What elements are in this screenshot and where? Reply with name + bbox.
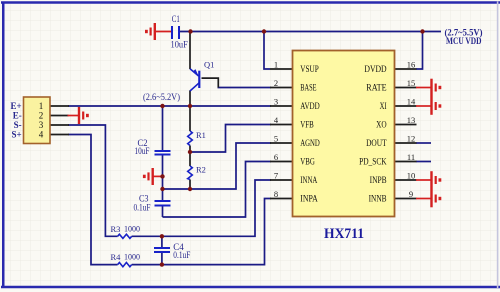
svg-text:C1: C1	[172, 14, 180, 24]
svg-text:PD_SCK: PD_SCK	[359, 158, 387, 168]
svg-text:S+: S+	[12, 130, 22, 140]
svg-text:10uF: 10uF	[171, 40, 188, 50]
svg-text:AGND: AGND	[300, 139, 320, 149]
svg-text:INPA: INPA	[300, 195, 318, 205]
svg-text:HX711: HX711	[324, 226, 364, 242]
svg-text:AVDD: AVDD	[300, 102, 320, 112]
svg-text:8: 8	[274, 189, 278, 199]
svg-text:1000: 1000	[124, 252, 140, 262]
svg-text:11: 11	[407, 152, 415, 162]
svg-text:VFB: VFB	[300, 121, 314, 131]
svg-text:(2.6~5.2V): (2.6~5.2V)	[143, 92, 180, 102]
svg-text:14: 14	[407, 96, 416, 106]
svg-text:7: 7	[274, 170, 278, 180]
svg-text:INNB: INNB	[369, 195, 387, 205]
svg-text:R4: R4	[111, 252, 122, 262]
svg-text:5: 5	[274, 133, 278, 143]
svg-text:XO: XO	[376, 121, 387, 131]
svg-text:10uF: 10uF	[135, 146, 150, 156]
svg-text:6: 6	[274, 152, 278, 162]
svg-text:R1: R1	[196, 130, 206, 140]
svg-text:INNA: INNA	[300, 176, 317, 186]
svg-text:MCU VDD: MCU VDD	[446, 36, 482, 46]
svg-text:E+: E+	[11, 101, 22, 111]
svg-text:2: 2	[39, 111, 44, 121]
svg-text:Q1: Q1	[204, 60, 214, 70]
svg-text:RATE: RATE	[366, 84, 387, 94]
svg-text:R2: R2	[196, 165, 206, 175]
svg-text:13: 13	[407, 115, 416, 125]
svg-text:BASE: BASE	[300, 84, 316, 94]
svg-text:XI: XI	[380, 102, 387, 112]
svg-text:10: 10	[407, 170, 416, 180]
svg-text:12: 12	[407, 133, 416, 143]
svg-text:S-: S-	[14, 120, 22, 130]
svg-text:E-: E-	[13, 111, 22, 121]
svg-text:16: 16	[407, 59, 416, 69]
svg-text:2: 2	[274, 78, 278, 88]
svg-text:4: 4	[39, 130, 44, 140]
svg-text:VSUP: VSUP	[300, 65, 319, 75]
svg-text:INPB: INPB	[370, 176, 387, 186]
svg-text:3: 3	[39, 120, 44, 130]
svg-text:9: 9	[409, 189, 413, 199]
svg-text:1000: 1000	[124, 223, 140, 233]
svg-text:0.1uF: 0.1uF	[134, 203, 151, 213]
svg-text:1: 1	[274, 59, 278, 69]
svg-text:DOUT: DOUT	[366, 139, 387, 149]
svg-text:VBG: VBG	[300, 158, 315, 168]
svg-text:R3: R3	[111, 224, 121, 234]
svg-text:15: 15	[407, 78, 416, 88]
svg-text:3: 3	[274, 96, 278, 106]
svg-text:0.1uF: 0.1uF	[173, 250, 190, 260]
svg-text:DVDD: DVDD	[364, 65, 386, 75]
svg-text:1: 1	[39, 101, 44, 111]
